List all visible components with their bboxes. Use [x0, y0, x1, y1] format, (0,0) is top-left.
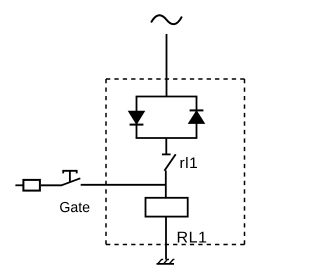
ground — [157, 259, 175, 264]
wire: diode block right branch — [196, 97, 198, 139]
wire from AC source to diode block — [166, 34, 168, 97]
dashed enclosure box — [106, 79, 245, 245]
wire: diode block to contact rl1 — [165, 138, 167, 154]
wire: diode block top rail — [136, 96, 198, 98]
diode D2 (right, cathode up) — [189, 110, 205, 123]
wire: contact to coil — [165, 171, 167, 198]
wire: gate switch to relay branch — [81, 184, 166, 186]
label RL1 — [178, 232, 206, 243]
wire: diode block left branch — [136, 97, 138, 139]
wire: diode block bottom rail — [136, 137, 198, 139]
input terminal stub wire — [15, 184, 22, 186]
contact rl1 blade — [164, 154, 175, 171]
label Gate — [60, 202, 89, 212]
gate push-switch blade — [62, 178, 81, 185]
label rl1 — [181, 157, 198, 168]
contact rl1 fixed terminal bar — [162, 153, 171, 155]
gate push-switch actuator — [63, 171, 76, 183]
wire: coil to ground — [165, 217, 167, 260]
wire: terminal box to gate switch — [41, 184, 62, 186]
relay coil RL1 — [146, 198, 188, 217]
input terminal box — [23, 180, 40, 191]
AC source V1 — [152, 15, 182, 24]
diode D1 (left, cathode down) — [129, 111, 145, 124]
